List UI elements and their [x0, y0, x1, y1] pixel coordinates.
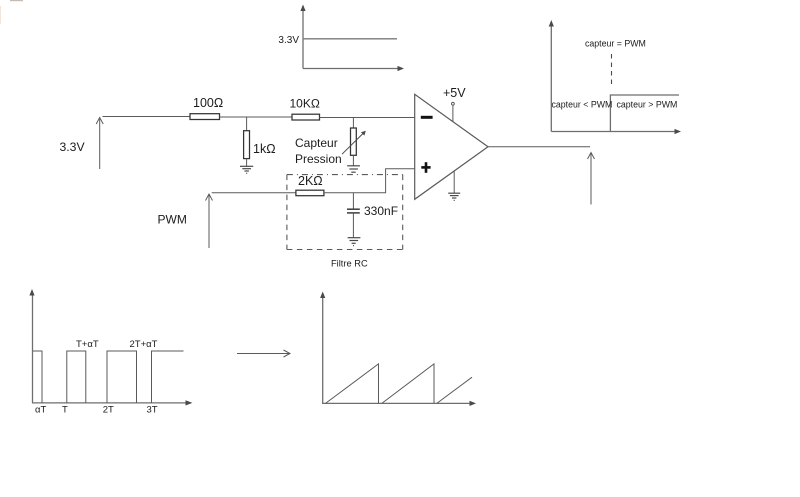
graph G2 vertical axis — [550, 25, 552, 132]
graph G3 PWM pulse train — [33, 351, 184, 403]
filtre RC dashed box right edge — [402, 175, 404, 250]
svg-text:100Ω: 100Ω — [193, 96, 223, 110]
svg-text:1kΩ: 1kΩ — [253, 142, 276, 156]
op-amp plus input symbol — [421, 162, 430, 173]
svg-text:T: T — [62, 405, 68, 416]
graph G3 vertical axis — [32, 294, 34, 403]
capacitor C1 plates — [347, 209, 360, 213]
graph G4 vertical axis arrowhead — [320, 292, 325, 299]
svg-text:T+αT: T+αT — [76, 339, 99, 350]
wire R2 to ground — [246, 159, 248, 167]
filtre RC dashed box top edge (dash-dot) — [287, 174, 403, 176]
svg-text:capteur < PWM: capteur < PWM — [552, 100, 613, 110]
svg-text:2T+αT: 2T+αT — [130, 339, 158, 350]
resistor R2 1kΩ — [244, 131, 250, 159]
graph G3 vertical axis arrowhead — [29, 289, 34, 296]
op-amp power pin terminal circle — [452, 102, 455, 105]
graph G1 3.3V level line — [303, 38, 397, 40]
arrow transform between graphs — [237, 350, 290, 357]
graph G1 vertical axis — [302, 8, 304, 69]
arrow output sense — [588, 153, 595, 205]
svg-text:Pression: Pression — [295, 152, 342, 166]
wire node C down to C1 — [352, 193, 354, 209]
svg-text:3.3V: 3.3V — [60, 140, 86, 154]
wire R1 to R3 — [220, 116, 293, 118]
graph G2 horizontal axis arrowhead — [675, 129, 682, 134]
svg-text:3T: 3T — [147, 405, 158, 416]
graph G4 horizontal axis arrowhead — [470, 401, 477, 406]
arrow 3.3V supply — [96, 118, 103, 170]
ground (capteur) — [347, 166, 360, 172]
ground (op-amp) — [448, 193, 460, 200]
filtre RC dashed box bottom edge — [287, 249, 403, 251]
graph G2 dashed threshold line — [611, 54, 613, 87]
wire R4 to op-amp plus (step) — [324, 169, 415, 193]
svg-text:330nF: 330nF — [364, 204, 398, 218]
svg-text:αT: αT — [35, 405, 46, 416]
svg-text:capteur > PWM: capteur > PWM — [617, 100, 678, 110]
svg-text:Capteur: Capteur — [295, 136, 338, 150]
wire node B down to capteur — [352, 118, 354, 129]
wire 3.3V rail left segment — [103, 116, 191, 118]
graph G1 vertical axis arrowhead — [300, 5, 305, 12]
graph G3 horizontal axis — [32, 402, 187, 404]
graph G1 horizontal axis arrowhead — [398, 66, 405, 71]
graph G2 vertical axis arrowhead — [549, 20, 554, 27]
smudge top-left corner — [0, 0, 23, 24]
graph G4 sawtooth waveform — [326, 364, 473, 404]
graph G3 horizontal axis arrowhead — [186, 400, 193, 405]
wire power pin to op-amp — [452, 106, 454, 122]
graph G1 horizontal axis — [303, 68, 399, 70]
ground (R2) — [240, 166, 253, 173]
wire node A down to R2 — [246, 117, 248, 131]
resistor R1 100Ω — [190, 114, 220, 120]
wire PWM to R4 — [212, 192, 296, 194]
wire R3 to op-amp minus — [320, 117, 415, 119]
ground (C1) — [348, 238, 361, 246]
op-amp minus input symbol — [421, 116, 433, 119]
svg-text:3.3V: 3.3V — [278, 35, 299, 46]
arrow PWM input — [206, 194, 213, 248]
filtre RC dashed box left edge — [286, 175, 288, 250]
wire op-amp output — [488, 146, 590, 148]
svg-text:PWM: PWM — [158, 213, 187, 227]
op-amp U1 body — [415, 94, 488, 199]
svg-text:Filtre RC: Filtre RC — [331, 259, 368, 269]
label Capteur Pression — [295, 136, 342, 166]
graph G4 vertical axis — [322, 297, 324, 404]
svg-text:capteur = PWM: capteur = PWM — [585, 39, 646, 49]
graph G2 step output line — [610, 95, 679, 132]
wire op-amp to ground — [453, 171, 455, 193]
resistor R4 2KΩ — [296, 190, 324, 196]
graph G2 horizontal axis — [551, 131, 676, 133]
wire C1 to ground — [352, 213, 354, 238]
resistor R3 10KΩ — [292, 114, 320, 120]
svg-text:2KΩ: 2KΩ — [298, 174, 323, 188]
svg-text:2T: 2T — [103, 405, 114, 416]
svg-text:+5V: +5V — [443, 86, 466, 100]
svg-text:10KΩ: 10KΩ — [290, 97, 320, 111]
wire capteur to ground — [352, 155, 354, 166]
capteur pression variable resistor — [342, 128, 366, 155]
graph G4 horizontal axis — [323, 402, 471, 404]
